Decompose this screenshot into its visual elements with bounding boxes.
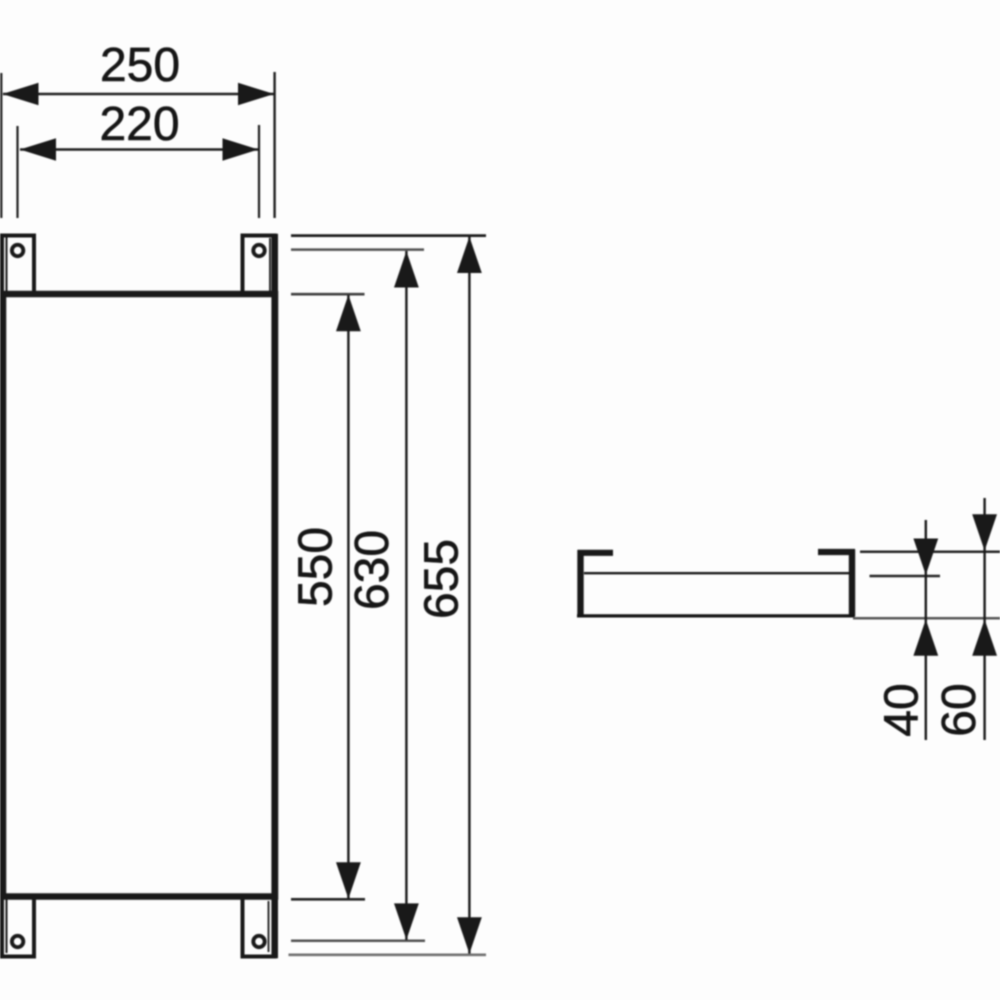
dim 550 bottom arrowhead	[336, 862, 361, 898]
dim 550	[289, 294, 365, 899]
side dims 40 / 60	[853, 498, 1000, 740]
profile left top hook	[578, 550, 614, 556]
svg-text:220: 220	[99, 98, 179, 151]
profile left end edge	[577, 550, 583, 617]
dim 550 bottom extension line	[291, 898, 365, 901]
dim 60 top extension line	[860, 551, 1000, 554]
dim 220 left arrowhead	[20, 138, 56, 160]
dim 60 upper arrowhead (points down)	[972, 514, 997, 550]
bottom-right mounting tab	[243, 897, 275, 957]
dim 220 right extension line	[258, 125, 260, 218]
dim 630 bottom arrowhead	[394, 903, 419, 939]
dim 655 dimension line	[468, 237, 470, 954]
top-left mounting tab	[2, 236, 34, 295]
bottom-left mounting tab	[2, 897, 34, 957]
svg-text:60: 60	[933, 683, 986, 736]
dim 220 left extension line	[16, 126, 18, 218]
dim 60 lower arrowhead (points up)	[972, 619, 997, 655]
dim 220 right arrowhead	[223, 138, 259, 160]
bottom-left tab fold seam	[6, 899, 8, 953]
top-right hole	[253, 245, 264, 256]
top-left hole	[12, 245, 23, 256]
top-right tab fold seam	[269, 238, 271, 292]
dim 655 top arrowhead	[457, 237, 482, 273]
dim 630 top arrowhead	[394, 251, 419, 287]
bottom-right tab fold seam	[268, 901, 270, 952]
dim 220 dimension line	[20, 148, 259, 150]
dim 655 bottom extension line	[289, 953, 487, 956]
dim 60 dimension line	[983, 498, 985, 740]
dim 40 top extension line	[870, 575, 941, 578]
profile right top hook	[818, 549, 855, 555]
bottom-right hole	[253, 936, 264, 947]
dim 630	[291, 250, 425, 941]
dim 550 top extension line	[291, 293, 365, 296]
dim 250 dimension line	[3, 93, 274, 95]
dim 250 right extension line	[273, 72, 275, 218]
svg-text:250: 250	[100, 39, 180, 92]
dim 630 dimension line	[405, 251, 407, 940]
profile right end edge	[849, 550, 855, 617]
svg-text:40: 40	[876, 683, 929, 736]
side profile view	[577, 550, 855, 617]
dim 630 top extension line	[291, 248, 424, 251]
dim 250 right arrowhead	[238, 83, 274, 105]
top-left tab fold seam	[6, 238, 8, 293]
dim 550 top arrowhead	[336, 295, 361, 331]
dim 40 upper arrowhead (points down)	[913, 539, 938, 575]
svg-text:655: 655	[416, 539, 469, 619]
panel right edge full height	[271, 234, 278, 959]
svg-text:550: 550	[289, 527, 342, 607]
dim 630 bottom extension line	[291, 940, 425, 943]
dim 40 lower arrowhead (points up)	[913, 619, 938, 655]
dim 250 left arrowhead	[3, 83, 39, 105]
svg-text:630: 630	[346, 530, 399, 610]
dim 655 top extension line	[291, 234, 486, 237]
profile inner top surface line	[584, 572, 850, 574]
dim 40 dimension line	[925, 520, 927, 740]
panel body front view	[3, 294, 275, 897]
dim 250 left extension line	[0, 73, 2, 218]
shared bottom extension line	[853, 617, 1000, 620]
dim 550 dimension line	[347, 295, 349, 899]
profile bottom surface line	[577, 614, 855, 617]
dim 655	[289, 236, 487, 955]
bottom-left hole	[12, 936, 23, 947]
top-right mounting tab	[243, 236, 275, 295]
dim 655 bottom arrowhead	[457, 917, 482, 953]
